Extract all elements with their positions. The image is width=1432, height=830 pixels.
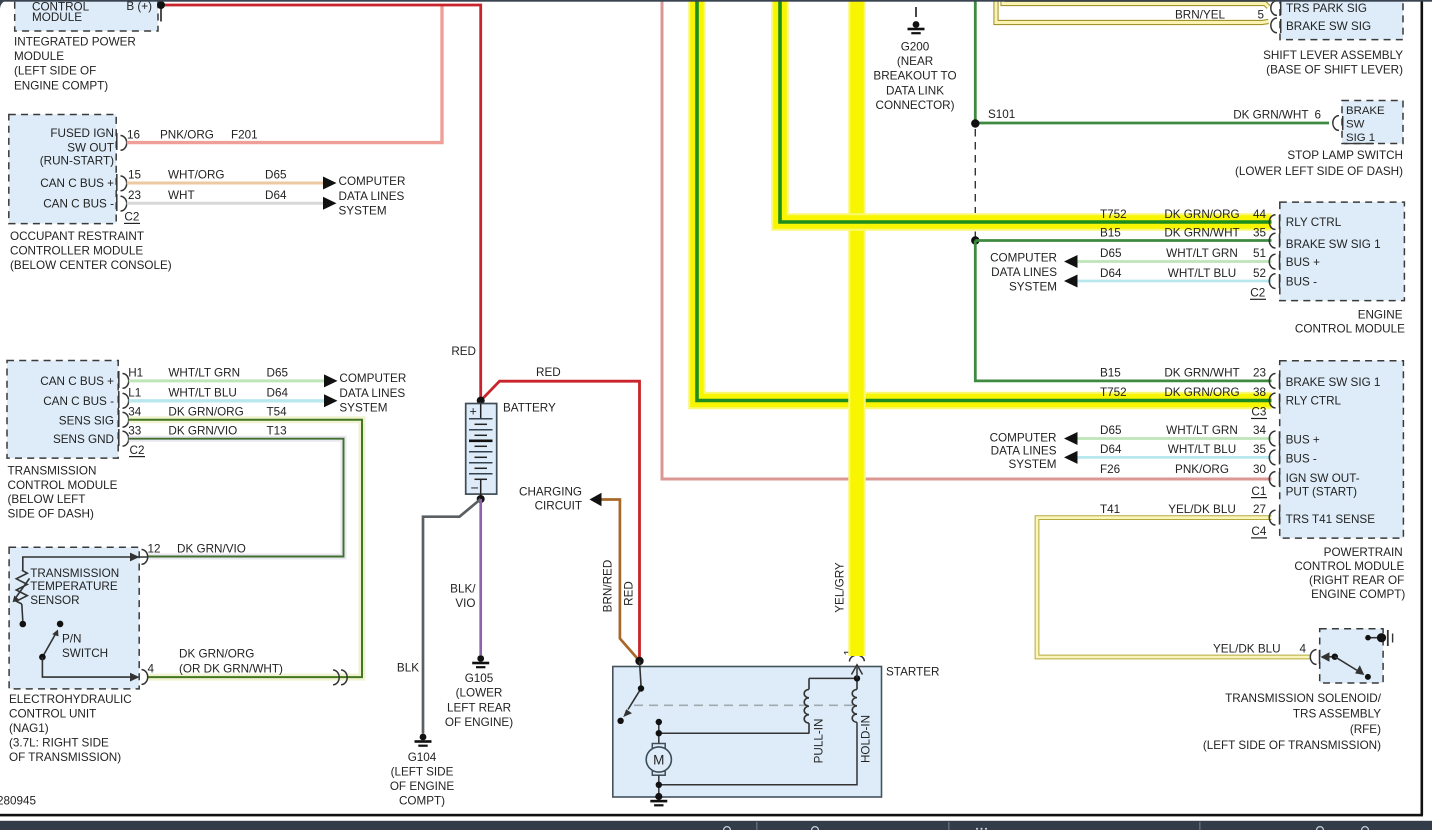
svg-text:DATA LINK: DATA LINK: [886, 84, 944, 97]
wire hold-in bottom to motor bottom: [659, 722, 857, 785]
node battery positive junction: [477, 397, 485, 405]
svg-text:LEFT REAR: LEFT REAR: [447, 701, 511, 714]
svg-text:BRAKE SW SIG 1: BRAKE SW SIG 1: [1286, 376, 1381, 389]
svg-text:OF ENGINE: OF ENGINE: [390, 780, 454, 793]
svg-text:SYSTEM: SYSTEM: [339, 204, 387, 217]
svg-text:CAN C BUS +: CAN C BUS +: [40, 375, 114, 388]
wire DK GRN/WHT from top to S101: [974, 0, 977, 124]
arrow computer data lines (TCM D65): [324, 374, 338, 387]
svg-text:SW: SW: [1346, 119, 1365, 131]
svg-text:CONNECTOR): CONNECTOR): [876, 99, 955, 112]
svg-text:30: 30: [1253, 463, 1267, 476]
node motor bottom junction: [656, 782, 662, 788]
label TRS assembly caption: [1203, 692, 1382, 752]
wire WHT/LT GRN D65 to PCM pin 34: [1077, 437, 1272, 440]
svg-text:D64: D64: [1100, 443, 1122, 456]
label computer data lines system (ECM): [990, 251, 1057, 293]
wire BRN/YEL to shift lever TRS PARK SIG: [1003, 0, 1269, 7]
svg-text:TRS ASSEMBLY: TRS ASSEMBLY: [1293, 708, 1381, 721]
svg-text:ENGINE: ENGINE: [1358, 308, 1403, 321]
svg-text:(LEFT SIDE: (LEFT SIDE: [391, 766, 454, 779]
svg-text:BUS +: BUS +: [1286, 434, 1320, 447]
svg-text:T13: T13: [267, 424, 287, 437]
svg-text:PNK/ORG: PNK/ORG: [1175, 463, 1229, 476]
svg-text:(LOWER: (LOWER: [456, 687, 503, 700]
svg-text:RED: RED: [623, 581, 636, 606]
svg-text:D65: D65: [1100, 247, 1122, 260]
svg-text:B15: B15: [1100, 226, 1121, 239]
svg-text:BRN/YEL: BRN/YEL: [1175, 9, 1226, 22]
svg-text:DK GRN/VIO: DK GRN/VIO: [168, 424, 237, 437]
svg-text:38: 38: [1253, 386, 1266, 399]
svg-text:D64: D64: [267, 386, 289, 399]
svg-text:SHIFT LEVER ASSEMBLY: SHIFT LEVER ASSEMBLY: [1263, 49, 1403, 62]
label connector C2 of TCM: [129, 444, 145, 457]
wire from P/N switch to EHCU pin 4: [42, 657, 135, 677]
label connector C4 of PCM: [1251, 525, 1267, 538]
label ORC pin wires: [127, 128, 287, 201]
svg-text:WHT/LT GRN: WHT/LT GRN: [1166, 247, 1238, 260]
svg-text:SIG 1: SIG 1: [1346, 132, 1375, 144]
connector pin 4 of TRS assembly: [1310, 650, 1319, 665]
label connector C1 of PCM: [1251, 485, 1267, 498]
svg-text:ELECTROHYDRAULIC: ELECTROHYDRAULIC: [9, 693, 132, 706]
label connector C3 of PCM: [1251, 406, 1267, 419]
svg-text:CONTROL MODULE: CONTROL MODULE: [1295, 322, 1405, 335]
label ECM pin wires: [1100, 208, 1266, 280]
module EHCU: electrohydraulic control unit box: [9, 547, 139, 689]
svg-text:TRANSMISSION: TRANSMISSION: [8, 464, 97, 477]
svg-text:TRS T41 SENSE: TRS T41 SENSE: [1286, 513, 1376, 526]
wire PNK/ORG F201 from ORC pin 16: [127, 5, 442, 142]
switch TRS: lead with arrowhead: [1322, 656, 1335, 658]
svg-text:SIDE OF DASH): SIDE OF DASH): [8, 508, 94, 521]
svg-text:SENS SIG: SENS SIG: [59, 415, 114, 428]
svg-text:DATA LINES: DATA LINES: [339, 190, 405, 203]
node solenoid switch pivot: [638, 685, 644, 691]
svg-text:BATTERY: BATTERY: [503, 402, 556, 415]
svg-text:6: 6: [1315, 109, 1322, 122]
svg-text:OCCUPANT RESTRAINT: OCCUPANT RESTRAINT: [10, 230, 144, 243]
svg-text:STOP LAMP SWITCH: STOP LAMP SWITCH: [1287, 149, 1403, 162]
svg-text:CONTROL MODULE: CONTROL MODULE: [1294, 560, 1404, 573]
wire BRN/YEL 5 to shift lever BRAKE SW SIG: [996, 0, 1269, 23]
svg-text:CHARGING: CHARGING: [519, 485, 582, 498]
svg-text:(NEAR: (NEAR: [897, 55, 933, 68]
node TRS upper large: [1377, 633, 1386, 642]
module PCM: powertrain control module box: [1280, 361, 1404, 538]
ground G104: [415, 734, 432, 747]
module IPM: integrated power module box: [15, 0, 158, 31]
connector pins of PCM: [1269, 374, 1279, 526]
node TRS upper small: [1365, 635, 1371, 641]
highlighted circuit: DK GRN/ORG T752 to ECM pin 44 (yellow trace B): [780, 0, 1272, 222]
node starter feed junction: [635, 657, 643, 665]
wire DK GRN/ORG T54 from TCM pin 34 to EHCU pin 4: [129, 420, 362, 677]
module transmission solenoid TRS assembly box: [1320, 629, 1383, 683]
svg-text:5: 5: [1257, 9, 1264, 22]
svg-text:BUS -: BUS -: [1286, 453, 1317, 466]
label computer data lines system (ORC): [339, 175, 406, 217]
arrowhead EHCU pin 4: [130, 673, 140, 682]
label BLK/VIO: [450, 583, 476, 611]
svg-text:COMPUTER: COMPUTER: [990, 251, 1057, 264]
svg-text:BRAKE SW SIG: BRAKE SW SIG: [1286, 20, 1371, 33]
ground starter case: [650, 800, 667, 807]
wire WHT/LT BLU D64 to PCM pin 35: [1077, 456, 1272, 459]
wire motor top to pull-in coil: [659, 722, 810, 744]
svg-text:PULL-IN: PULL-IN: [813, 719, 826, 764]
connector pins of shift lever box: [1271, 1, 1281, 33]
svg-text:16: 16: [127, 128, 140, 141]
svg-text:D65: D65: [265, 169, 287, 182]
svg-text:280945: 280945: [0, 795, 37, 808]
node hold-in top junction: [854, 675, 860, 681]
svg-text:RED: RED: [536, 366, 561, 379]
switch: starter solenoid contact: [628, 661, 641, 710]
module ECM: engine control module box: [1280, 202, 1405, 301]
label charging circuit: [519, 485, 582, 512]
svg-text:(RFE): (RFE): [1350, 723, 1381, 736]
module ORC: occupant restraint controller box: [9, 115, 116, 224]
svg-text:P/N: P/N: [62, 633, 81, 646]
svg-text:OF TRANSMISSION): OF TRANSMISSION): [9, 751, 121, 764]
wire WHT/ORG D65 from ORC pin 15: [127, 182, 324, 185]
svg-text:D65: D65: [1100, 424, 1122, 437]
svg-text:COMPT): COMPT): [399, 795, 445, 808]
svg-text:FUSED IGN: FUSED IGN: [50, 127, 114, 140]
wire DK GRN/WHT B15 to ECM pin 35: [975, 239, 1271, 242]
svg-text:WHT/LT GRN: WHT/LT GRN: [1166, 424, 1238, 437]
arrow computer data lines (ECM D65): [1064, 255, 1078, 268]
arrowhead of P/N switch arm: [52, 630, 58, 637]
svg-text:RED: RED: [451, 345, 476, 358]
arrow computer data lines (PCM D64): [1064, 451, 1078, 464]
resistor: transmission temperature sensor: [15, 557, 148, 621]
svg-text:G105: G105: [465, 672, 494, 685]
coil HOLD-IN: [852, 678, 857, 722]
svg-text:WHT: WHT: [168, 189, 195, 202]
svg-text:(BELOW LEFT: (BELOW LEFT: [8, 493, 86, 506]
label connector C2: [124, 211, 140, 224]
svg-text:INTEGRATED POWER: INTEGRATED POWER: [14, 36, 136, 49]
wire WHT/LT BLU D64 from TCM pin L1: [129, 399, 325, 402]
label TCM caption: [8, 464, 118, 520]
battery BATT: [466, 404, 497, 500]
frame: diagram border bottom: [0, 814, 1423, 817]
svg-text:T41: T41: [1100, 503, 1120, 516]
svg-text:M: M: [653, 753, 664, 768]
svg-text:(NAG1): (NAG1): [9, 722, 49, 735]
module stop lamp switch box: [1342, 101, 1403, 145]
svg-text:35: 35: [1253, 443, 1267, 456]
node battery negative junction: [477, 495, 485, 503]
label IPM caption: [14, 36, 136, 93]
label P/N switch: [62, 633, 108, 660]
arrow computer data lines (ECM D64): [1064, 275, 1078, 288]
connector pin of stop lamp switch: [1333, 116, 1343, 131]
label ORC caption: [10, 230, 172, 272]
label stop lamp switch caption: [1235, 149, 1403, 178]
arrow computer data lines (TCM D64): [324, 394, 338, 407]
svg-text:BRN/RED: BRN/RED: [602, 560, 615, 613]
label shift lever caption: [1263, 49, 1403, 77]
label G105 caption: [445, 672, 513, 729]
svg-text:SYSTEM: SYSTEM: [1008, 458, 1056, 471]
svg-text:(RUN-START): (RUN-START): [40, 155, 114, 168]
svg-text:C3: C3: [1251, 406, 1266, 419]
svg-text:C4: C4: [1251, 525, 1266, 538]
svg-text:SENSOR: SENSOR: [30, 594, 79, 607]
svg-text:G200: G200: [901, 40, 930, 53]
svg-text:DATA LINES: DATA LINES: [991, 266, 1057, 279]
svg-text:C2: C2: [1250, 287, 1265, 300]
svg-text:TEMPERATURE: TEMPERATURE: [30, 580, 118, 593]
svg-text:BUS +: BUS +: [1286, 256, 1320, 269]
taskbar at bottom: [0, 821, 1432, 830]
svg-text:BREAKOUT TO: BREAKOUT TO: [873, 70, 956, 83]
wire BRN/RED to charging circuit: [602, 500, 640, 662]
connector C2 pins of ORC: [117, 133, 127, 211]
svg-text:23: 23: [128, 189, 141, 202]
svg-text:−: −: [471, 480, 479, 496]
svg-text:DK GRN/ORG: DK GRN/ORG: [1164, 208, 1239, 221]
arrow computer data lines (ORC D64): [323, 197, 337, 210]
wire PNK/ORG F26 vertical from top: [662, 0, 1272, 479]
arrow to charging circuit: [590, 493, 602, 507]
wire DK GRN/WHT B15 down to PCM pin 23: [975, 241, 1271, 381]
svg-text:44: 44: [1253, 208, 1267, 221]
svg-text:(LOWER LEFT SIDE OF DASH): (LOWER LEFT SIDE OF DASH): [1235, 165, 1403, 178]
switch P/N: fixed contact: [57, 621, 64, 628]
TRS case terminal bars: [1387, 630, 1389, 646]
wire motor bottom to starter ground: [658, 775, 660, 796]
module TCM: transmission control module box: [7, 361, 118, 459]
node: resistor lower terminal: [20, 621, 27, 628]
svg-text:CONTROL MODULE: CONTROL MODULE: [8, 479, 118, 492]
svg-text:27: 27: [1253, 503, 1266, 516]
svg-text:SW OUT: SW OUT: [67, 141, 114, 154]
highlighted circuit: YEL/GRY to starter pin 1 (yellow trace C): [848, 0, 866, 656]
svg-text:(RIGHT REAR OF: (RIGHT REAR OF: [1309, 574, 1404, 587]
label computer data lines system (TCM): [339, 372, 406, 414]
svg-text:BRAKE: BRAKE: [1346, 105, 1385, 117]
svg-text:15: 15: [128, 169, 142, 182]
label PCM caption: [1294, 546, 1405, 601]
svg-text:CIRCUIT: CIRCUIT: [535, 500, 582, 513]
svg-text:WHT/LT GRN: WHT/LT GRN: [168, 367, 240, 380]
wire WHT/LT GRN D65 to ECM pin 51: [1077, 260, 1272, 263]
node TRS fixed contact: [1365, 674, 1371, 680]
wire BLK from battery to G104: [423, 499, 481, 734]
wire DK GRN/WHT 6 from S101 to stop lamp switch: [975, 122, 1329, 125]
inline connector on EHCU pin 4 wire: [333, 670, 347, 685]
frame: browser top edge: [0, 0, 1432, 2]
svg-text:BUS -: BUS -: [1286, 276, 1317, 289]
node B(+) at IPM: [157, 1, 165, 9]
svg-text:23: 23: [1253, 367, 1266, 380]
svg-text:OF ENGINE): OF ENGINE): [445, 716, 513, 729]
svg-text:TRANSMISSION SOLENOID/: TRANSMISSION SOLENOID/: [1225, 692, 1382, 705]
svg-text:POWERTRAIN: POWERTRAIN: [1324, 546, 1403, 559]
wire WHT/LT GRN D65 from TCM pin H1: [129, 379, 325, 382]
svg-text:DK GRN/VIO: DK GRN/VIO: [177, 543, 246, 556]
node starter case terminal: [655, 793, 662, 800]
svg-text:MODULE: MODULE: [14, 50, 64, 63]
svg-text:RLY CTRL: RLY CTRL: [1286, 216, 1342, 229]
svg-text:BRAKE SW SIG 1: BRAKE SW SIG 1: [1286, 238, 1381, 251]
svg-text:ENGINE COMPT): ENGINE COMPT): [1311, 588, 1405, 601]
svg-text:WHT/LT BLU: WHT/LT BLU: [1168, 443, 1236, 456]
svg-text:RLY CTRL: RLY CTRL: [1286, 395, 1342, 408]
svg-text:BLK: BLK: [397, 662, 419, 675]
svg-text:D65: D65: [267, 367, 289, 380]
wire BLK/VIO from battery to G105: [479, 499, 482, 655]
arrowhead EHCU pin 12: [130, 553, 140, 562]
label ECM caption: [1295, 308, 1405, 335]
svg-text:TRS PARK SIG: TRS PARK SIG: [1286, 2, 1367, 15]
node solenoid fixed contact: [617, 718, 623, 724]
label connector C2 of ECM: [1250, 287, 1266, 300]
svg-text:S101: S101: [988, 108, 1015, 121]
wire YEL/DK BLU T41 from PCM pin 27 to TRS assembly: [1037, 518, 1310, 657]
svg-text:CONTROL UNIT: CONTROL UNIT: [9, 708, 96, 721]
svg-text:33: 33: [128, 424, 141, 437]
label EHCU caption: [9, 693, 132, 764]
module starter box: [613, 667, 882, 798]
svg-text:WHT/LT BLU: WHT/LT BLU: [1168, 267, 1236, 280]
svg-text:WHT/LT BLU: WHT/LT BLU: [168, 386, 236, 399]
svg-text:51: 51: [1253, 247, 1266, 260]
label transmission temperature sensor: [30, 567, 119, 607]
connector C2 pins of TCM: [119, 371, 129, 446]
svg-text:SYSTEM: SYSTEM: [339, 401, 387, 414]
svg-text:VIO: VIO: [455, 597, 475, 610]
svg-text:DK GRN/WHT: DK GRN/WHT: [1164, 226, 1239, 239]
coil PULL-IN: [804, 678, 809, 733]
label PCM pin wires: [1100, 367, 1266, 516]
ground G105: [472, 655, 489, 668]
svg-text:C1: C1: [1251, 485, 1266, 498]
node S101: [971, 119, 979, 127]
svg-text:C2: C2: [124, 211, 139, 224]
switch TRS: arm: [1335, 657, 1361, 673]
svg-text:DK GRN/WHT: DK GRN/WHT: [1164, 367, 1239, 380]
svg-text:G104: G104: [408, 751, 437, 764]
wire RED battery feed from IPM B(+): [161, 5, 481, 401]
connector pins of EHCU: [142, 550, 148, 685]
node: P/N switch pivot: [39, 654, 46, 661]
svg-text:SWITCH: SWITCH: [62, 647, 108, 660]
arrowhead of TRS switch arm: [1355, 665, 1364, 675]
svg-text:+: +: [470, 405, 477, 419]
switch P/N: arm: [42, 633, 56, 657]
connector pins of ECM: [1269, 215, 1279, 289]
svg-text:WHT/ORG: WHT/ORG: [168, 169, 224, 182]
svg-text:H1: H1: [128, 367, 143, 380]
svg-text:BLK/: BLK/: [450, 583, 476, 596]
connector starter pin 1: [849, 655, 864, 661]
svg-text:DK GRN/WHT: DK GRN/WHT: [1233, 109, 1308, 122]
wire RED from battery junction to starter: [481, 381, 640, 661]
svg-text:DK GRN/ORG: DK GRN/ORG: [179, 648, 254, 661]
ground G200: [908, 7, 925, 34]
frame: browser top-left rounded corner: [0, 0, 9, 9]
label G200 caption: [873, 40, 956, 112]
svg-text:DATA LINES: DATA LINES: [339, 387, 405, 400]
svg-text:4: 4: [1299, 643, 1306, 656]
svg-text:MODULE: MODULE: [32, 11, 82, 24]
svg-text:12: 12: [148, 543, 161, 556]
svg-text:CAN C BUS +: CAN C BUS +: [40, 177, 114, 190]
svg-text:C2: C2: [130, 444, 145, 457]
svg-text:CAN C BUS -: CAN C BUS -: [43, 197, 114, 210]
node TRS switch pivot: [1332, 654, 1338, 660]
svg-text:T752: T752: [1100, 386, 1127, 399]
svg-text:SYSTEM: SYSTEM: [1009, 281, 1057, 294]
svg-text:SENS GND: SENS GND: [53, 433, 114, 446]
node motor top terminal: [656, 719, 662, 725]
svg-text:DATA LINES: DATA LINES: [991, 445, 1057, 458]
dashed splice line below S101: [974, 129, 976, 213]
svg-text:(LEFT SIDE OF TRANSMISSION): (LEFT SIDE OF TRANSMISSION): [1203, 739, 1381, 752]
svg-text:4: 4: [148, 663, 155, 676]
wire WHT/LT BLU D64 to ECM pin 52: [1077, 280, 1272, 283]
svg-text:COMPUTER: COMPUTER: [990, 432, 1057, 445]
svg-text:TRANSMISSION: TRANSMISSION: [30, 567, 119, 580]
arrow computer data lines (ORC D65): [323, 177, 337, 190]
svg-text:COMPUTER: COMPUTER: [339, 372, 406, 385]
label G104 caption: [390, 751, 454, 808]
svg-text:(BASE OF SHIFT LEVER): (BASE OF SHIFT LEVER): [1266, 64, 1403, 77]
svg-text:52: 52: [1253, 267, 1266, 280]
arrowhead of thermistor: [13, 596, 20, 603]
highlighted circuit: DK GRN/ORG T752 to PCM pin 38 (yellow trace A): [697, 0, 1272, 401]
frame: diagram border right: [1421, 1, 1424, 815]
svg-text:STARTER: STARTER: [886, 666, 939, 679]
svg-text:PUT (START): PUT (START): [1286, 486, 1358, 499]
svg-text:YEL/DK BLU: YEL/DK BLU: [1168, 503, 1236, 516]
svg-text:T752: T752: [1100, 208, 1127, 221]
svg-text:(LEFT SIDE OF: (LEFT SIDE OF: [14, 65, 96, 78]
svg-text:D64: D64: [1100, 267, 1122, 280]
svg-text:D64: D64: [265, 189, 287, 202]
label TCM pin wires: [128, 367, 288, 438]
label EHCU pin wires: [148, 543, 283, 676]
svg-text:ENGINE COMPT): ENGINE COMPT): [14, 79, 108, 92]
svg-text:DK GRN/ORG: DK GRN/ORG: [1164, 386, 1239, 399]
pin lead at IPM B(+): [160, 5, 162, 22]
arrow computer data lines (PCM D65): [1064, 432, 1078, 445]
svg-text:F201: F201: [231, 128, 258, 141]
module shift lever assembly box: [1280, 0, 1403, 40]
svg-text:(OR DK GRN/WHT): (OR DK GRN/WHT): [179, 663, 283, 676]
svg-text:35: 35: [1253, 226, 1267, 239]
wire DK GRN/VIO T13 from TCM pin 33 to EHCU pin 12: [129, 439, 344, 557]
node pull-in tap: [656, 730, 662, 736]
svg-text:IGN SW OUT-: IGN SW OUT-: [1286, 472, 1360, 485]
motor M of starter: [646, 744, 671, 776]
label computer data lines system (PCM): [990, 432, 1057, 471]
svg-text:34: 34: [1253, 424, 1267, 437]
svg-text:B (+): B (+): [126, 0, 152, 13]
svg-text:YEL/GRY: YEL/GRY: [834, 562, 847, 613]
svg-text:PNK/ORG: PNK/ORG: [160, 128, 214, 141]
svg-text:YEL/DK BLU: YEL/DK BLU: [1213, 643, 1281, 656]
node splice at B15: [971, 236, 979, 244]
svg-text:CAN C BUS -: CAN C BUS -: [43, 395, 114, 408]
svg-text:L1: L1: [128, 386, 141, 399]
